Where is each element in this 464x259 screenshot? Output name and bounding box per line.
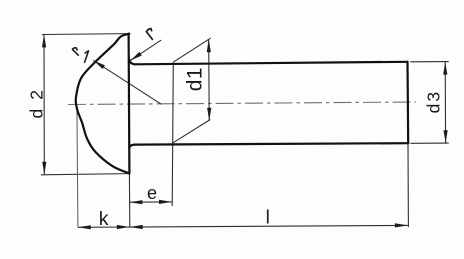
svg-text:d2: d2 bbox=[26, 81, 46, 118]
svg-text:d3: d3 bbox=[423, 90, 443, 113]
svg-text:k: k bbox=[99, 208, 109, 230]
svg-text:d1: d1 bbox=[184, 67, 207, 91]
svg-text:e: e bbox=[147, 183, 157, 203]
svg-text:l: l bbox=[266, 207, 270, 228]
